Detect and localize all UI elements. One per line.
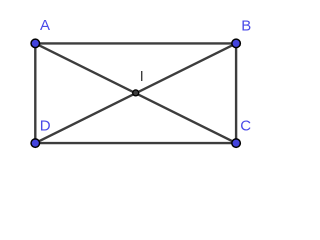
svg-text:B: B — [241, 18, 251, 35]
svg-text:D: D — [40, 118, 51, 135]
svg-text:I: I — [140, 68, 144, 85]
svg-text:A: A — [40, 17, 50, 34]
node I (intersection of diagonals) — [133, 90, 139, 96]
wire segment DC (bottom side) — [35, 142, 236, 144]
wire segment AD (left side) — [34, 43, 36, 143]
wire diagonal AC — [35, 43, 236, 143]
node A — [31, 39, 40, 48]
wire diagonal BD — [35, 43, 236, 143]
node D — [31, 139, 40, 148]
svg-text:C: C — [240, 118, 251, 135]
node B — [232, 39, 241, 48]
wire segment AB (top side) — [35, 42, 236, 44]
wire segment BC (right side) — [235, 43, 237, 143]
node C — [232, 139, 241, 148]
